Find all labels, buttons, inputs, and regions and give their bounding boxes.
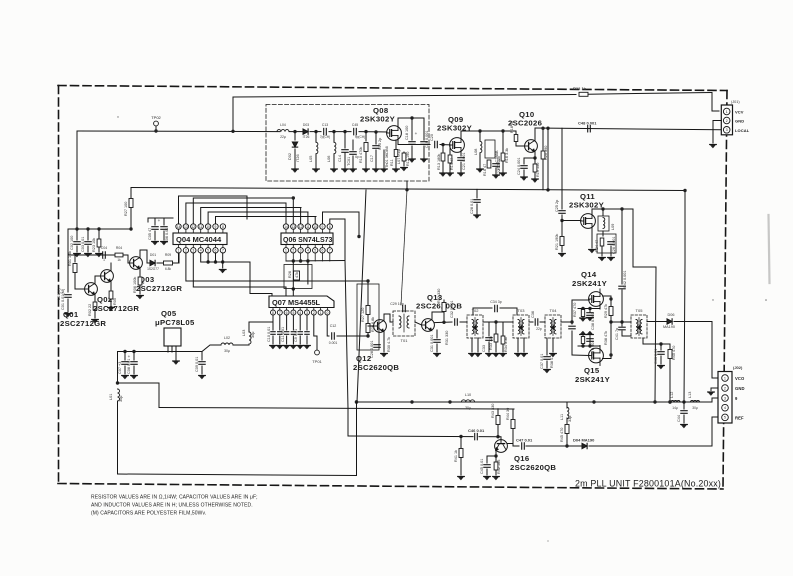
wire C05 column xyxy=(147,218,149,222)
capacitor C29 xyxy=(403,305,406,311)
node rail A 450 xyxy=(448,400,451,403)
wire gate column lower xyxy=(571,331,573,355)
ground R14 xyxy=(447,173,454,176)
ground R17 xyxy=(500,173,507,176)
wire q06 to q07 left xyxy=(285,287,287,296)
ground C31 xyxy=(434,354,441,357)
wire T05 out xyxy=(647,321,666,323)
node q06 c1 xyxy=(292,287,295,290)
IC Q07 pins xyxy=(271,308,330,316)
wire L08 down xyxy=(479,153,481,162)
wire Q08 drain up xyxy=(397,118,399,126)
wire C32 to T02 xyxy=(460,321,467,323)
svg-text:R27 120: R27 120 xyxy=(361,308,365,322)
svg-text:R38 4.7: R38 4.7 xyxy=(550,355,554,368)
wire R38 col xyxy=(582,335,584,347)
wire R41 col xyxy=(460,437,462,449)
wire L05 branch xyxy=(315,132,317,142)
ground R02 xyxy=(92,320,99,323)
capacitor below Q07 1 xyxy=(271,332,275,335)
resistor R17 xyxy=(501,153,505,161)
border frame (decorative) xyxy=(58,86,727,490)
svg-text:IT26: IT26 xyxy=(296,154,300,162)
svg-text:C37 0.01: C37 0.01 xyxy=(540,354,544,369)
svg-text:3: 3 xyxy=(306,311,308,315)
wire R10 branch xyxy=(365,132,367,141)
wire pin6 stub xyxy=(215,253,217,262)
svg-text:30μ: 30μ xyxy=(251,332,255,338)
svg-text:0.001: 0.001 xyxy=(329,341,338,345)
capacitor C02 xyxy=(74,242,80,245)
svg-text:1k: 1k xyxy=(117,258,121,262)
capacitor below Q07 5 xyxy=(298,332,302,335)
wire supply bus xyxy=(131,188,685,191)
wire q07 pin1 out xyxy=(327,315,329,336)
capacitor C07 xyxy=(122,362,128,365)
wire T04 bottom gnd xyxy=(552,338,554,352)
wire T02 bottom gnd2 xyxy=(477,338,479,352)
wire C47 out xyxy=(526,445,581,447)
transistor Q03 xyxy=(130,257,143,270)
inductor L09a box xyxy=(485,140,495,158)
wire C41 stub xyxy=(621,322,623,326)
wire thermistor branch xyxy=(383,150,385,168)
svg-text:AND INDUCTOR VALUES ARE IN H;: AND INDUCTOR VALUES ARE IN H; UNLESS OTH… xyxy=(91,503,253,509)
svg-text:2SC2620QB: 2SC2620QB xyxy=(353,363,399,372)
transistor Q02 xyxy=(101,270,114,283)
node L05 junction xyxy=(314,130,317,133)
wire Q04 pin14 route xyxy=(179,196,248,224)
wire to Q12 base xyxy=(368,325,374,327)
wire Q02 emitter xyxy=(110,281,112,290)
wire rail A xyxy=(357,401,713,403)
svg-text:R30 4.7k: R30 4.7k xyxy=(387,337,391,352)
node box top tie xyxy=(366,279,369,282)
svg-text:μPC78L05: μPC78L05 xyxy=(155,318,195,327)
inductor L06 xyxy=(334,142,336,153)
svg-text:C43 0.01: C43 0.01 xyxy=(654,349,658,364)
wire q06 pin13 up xyxy=(292,198,294,224)
wire q06 pin9 up xyxy=(323,212,360,224)
svg-text:C44: C44 xyxy=(677,415,681,422)
wire R10 to ground xyxy=(365,152,367,168)
svg-text:GND: GND xyxy=(735,386,745,391)
resistor R33 xyxy=(494,334,498,342)
wire Q08 drain top xyxy=(398,117,424,119)
inductor L02 xyxy=(221,343,233,345)
wire R21 to ground xyxy=(561,246,563,253)
inductor L05 xyxy=(316,142,318,153)
svg-text:47k: 47k xyxy=(295,272,299,278)
ground C26 xyxy=(608,258,615,261)
wire L01 step down xyxy=(158,383,160,408)
capacitor C04 xyxy=(103,252,106,258)
svg-text:Q06 SN74LS73: Q06 SN74LS73 xyxy=(283,237,333,244)
svg-text:9: 9 xyxy=(215,225,217,229)
node Q15 src b xyxy=(588,344,591,347)
capacitor C45b xyxy=(484,465,490,468)
wire C06 gnd xyxy=(163,231,165,240)
wire L11 col xyxy=(566,402,568,408)
svg-text:2SK241Y: 2SK241Y xyxy=(575,375,610,384)
wire T02 top out xyxy=(473,308,492,315)
svg-text:C36: C36 xyxy=(531,311,535,318)
svg-text:(J02): (J02) xyxy=(733,365,743,370)
FET Q15 xyxy=(589,346,604,366)
svg-text:D03: D03 xyxy=(303,123,309,127)
node rail A 654 xyxy=(653,400,656,403)
svg-text:R14 47: R14 47 xyxy=(450,158,454,170)
svg-text:REF: REF xyxy=(735,416,744,421)
node C14 junction xyxy=(343,130,346,133)
svg-text:13: 13 xyxy=(184,225,188,229)
wire q07 pin5 down xyxy=(299,315,301,330)
capacitor C32 xyxy=(455,319,458,325)
wire TP02 stem xyxy=(155,126,157,131)
wire R2728 mid xyxy=(367,296,369,336)
capacitor C42 xyxy=(619,286,625,289)
svg-text:C07 +3: C07 +3 xyxy=(118,362,122,374)
resistor R34 xyxy=(501,336,505,344)
capacitor C08 xyxy=(131,362,137,365)
wire R45 down xyxy=(566,434,568,447)
svg-text:5: 5 xyxy=(314,249,316,253)
wire C03 to ground xyxy=(87,246,89,252)
inductor L11 xyxy=(567,407,569,418)
wire C18 branch xyxy=(411,118,413,140)
svg-text:R24 47: R24 47 xyxy=(595,240,599,252)
svg-text:C15 2p: C15 2p xyxy=(378,138,382,150)
svg-text:R01 1.5k: R01 1.5k xyxy=(68,251,72,266)
wire rail B xyxy=(159,408,514,410)
wire R33 gnd xyxy=(495,342,497,352)
transistor Q12 xyxy=(374,320,387,333)
svg-text:R26: R26 xyxy=(288,271,292,278)
svg-text:R16 47: R16 47 xyxy=(483,164,487,176)
inductor L01 xyxy=(118,389,120,401)
wire C01 to ground xyxy=(67,299,69,312)
svg-text:2: 2 xyxy=(724,386,726,390)
ground T02b xyxy=(475,354,482,357)
capacitor C12 xyxy=(332,333,335,339)
svg-text:R41 1k: R41 1k xyxy=(454,450,458,462)
wire Q11 vert xyxy=(547,128,549,190)
resistor R32 xyxy=(442,303,446,312)
wire Q14 src stub xyxy=(578,308,600,310)
svg-text:C48 0.001: C48 0.001 xyxy=(578,121,597,126)
wire C19 branch xyxy=(423,118,425,140)
svg-text:1: 1 xyxy=(178,249,180,253)
svg-text:1: 1 xyxy=(103,258,105,262)
capacitor C41 xyxy=(619,327,625,330)
svg-text:R19 150: R19 150 xyxy=(536,163,540,177)
node C42 top xyxy=(620,207,623,210)
wire R42 gnd xyxy=(495,470,497,475)
svg-text:C26 0.001: C26 0.001 xyxy=(612,236,616,254)
ground C02 xyxy=(74,254,81,257)
wire C25 column xyxy=(561,128,563,209)
capacitor C28b xyxy=(474,200,480,203)
crystal X02 xyxy=(294,271,300,280)
svg-text:2SC2712GR: 2SC2712GR xyxy=(136,284,182,293)
svg-text:C03 0.01: C03 0.01 xyxy=(81,237,85,252)
wire C03 drop xyxy=(87,229,89,240)
svg-text:MA190: MA190 xyxy=(663,325,675,329)
resistor R27 xyxy=(129,199,133,208)
svg-text:+: + xyxy=(415,131,418,136)
wire q06 pin14 up xyxy=(285,203,287,224)
wire R21 drop xyxy=(561,221,563,237)
IC Q07 body xyxy=(269,296,334,308)
wire C33 drop xyxy=(488,322,490,336)
capacitor C03 xyxy=(85,242,91,245)
ground C37 xyxy=(544,370,551,373)
inductor L08 xyxy=(480,141,482,152)
svg-text:L13: L13 xyxy=(688,392,692,398)
wire Q15 gate xyxy=(572,354,589,357)
resistor R04 xyxy=(115,253,123,257)
resistor R02 xyxy=(93,302,97,310)
wire V1 corner xyxy=(347,408,349,436)
capacitor C20 xyxy=(435,141,438,147)
transformer T01 (dashed can) xyxy=(393,311,415,336)
wire D06 to VCO xyxy=(674,322,718,379)
wire L06 branch xyxy=(333,132,335,142)
svg-text:4: 4 xyxy=(307,249,309,253)
wire TC01 branch xyxy=(352,140,354,150)
wire L06 to ground xyxy=(333,154,335,168)
node bus osc tap xyxy=(405,188,408,191)
ground C09 xyxy=(199,376,206,379)
ground C06 xyxy=(161,242,168,245)
svg-text:R17 12k: R17 12k xyxy=(497,156,501,170)
svg-text:13: 13 xyxy=(291,225,295,229)
wire R11 to ground xyxy=(395,157,397,168)
node Q16 emitter xyxy=(494,454,497,457)
resistor R16 xyxy=(487,160,491,168)
wire Q15 drain xyxy=(603,355,612,359)
wire stray node drop xyxy=(358,212,360,236)
wire left input rail drop xyxy=(76,131,78,229)
IC Q04 top pins xyxy=(176,224,226,233)
svg-text:R32 330: R32 330 xyxy=(437,289,441,303)
svg-text:LOCAL: LOCAL xyxy=(735,128,750,133)
ground R23 xyxy=(96,254,103,257)
wire Q03 collector to D01 xyxy=(140,250,149,263)
wire R32 col xyxy=(443,300,445,322)
wire TP01 stem xyxy=(316,336,318,350)
wire C45 to Q08 gate xyxy=(359,131,387,133)
svg-text:C45: C45 xyxy=(352,123,358,127)
capacitor C39 xyxy=(587,339,593,342)
capacitor C06 xyxy=(161,227,167,230)
FET Q14 xyxy=(589,289,604,309)
capacitor C34 xyxy=(495,305,498,311)
wire top supply rail xyxy=(233,95,576,98)
wire reg rail xyxy=(118,351,203,353)
svg-text:C09 0.01: C09 0.01 xyxy=(195,357,199,372)
svg-text:C12: C12 xyxy=(330,324,337,328)
ground q07 6 xyxy=(304,346,311,349)
wire Q14 drain xyxy=(603,296,612,299)
node bias b xyxy=(86,227,89,230)
ground L05 xyxy=(313,169,320,172)
wire bias down xyxy=(68,229,75,255)
wire R23 to ground xyxy=(98,247,100,252)
svg-text:C17: C17 xyxy=(370,155,374,162)
wire Q13 emitter xyxy=(436,330,438,338)
ground T03b xyxy=(521,354,528,357)
svg-text:L08: L08 xyxy=(474,149,478,155)
ground C05 xyxy=(152,242,159,245)
inductor L10 xyxy=(461,400,474,402)
wire L13 to pin3 xyxy=(700,398,719,402)
svg-text:Q15: Q15 xyxy=(584,366,600,375)
svg-text:C19 0.001: C19 0.001 xyxy=(425,130,429,148)
svg-text:R20 390: R20 390 xyxy=(544,146,548,160)
resistor R12 xyxy=(402,153,406,161)
node q06 b2 xyxy=(299,259,302,262)
transistor Q13 xyxy=(422,319,435,332)
wire L09 drop xyxy=(602,209,604,216)
trimmer TC01 xyxy=(350,152,356,155)
svg-text:T01: T01 xyxy=(401,338,409,343)
svg-text:R04: R04 xyxy=(116,246,122,250)
svg-text:C28 0.01: C28 0.01 xyxy=(470,199,474,214)
wire R14 to ground xyxy=(449,163,451,172)
capacitor C18 xyxy=(409,142,415,145)
bias network R27 R28 box xyxy=(357,284,379,350)
transformer T03 xyxy=(513,315,529,338)
svg-text:L04: L04 xyxy=(280,123,286,127)
wire L03 up xyxy=(249,315,273,332)
wire C05C06 rail xyxy=(148,217,173,219)
node reg b xyxy=(132,350,135,353)
node C43 top xyxy=(659,342,662,345)
node Q09 gate xyxy=(441,143,444,146)
wire bottom loop xyxy=(118,474,357,476)
svg-text:R38 47k: R38 47k xyxy=(604,331,608,345)
svg-text:Th01 3KDB6: Th01 3KDB6 xyxy=(385,146,389,168)
ground C21 xyxy=(458,173,465,176)
svg-text:R40 470: R40 470 xyxy=(672,346,676,360)
wire Q09 drain up xyxy=(460,131,462,138)
wire bus to T01 area xyxy=(401,190,407,305)
inductor L13 xyxy=(691,401,700,403)
svg-text:C08 0.01: C08 0.01 xyxy=(127,359,131,374)
svg-text:R43 330: R43 330 xyxy=(491,404,495,418)
svg-text:T03: T03 xyxy=(518,308,526,313)
wire Q01 collector xyxy=(95,276,101,284)
node R41 top xyxy=(459,435,462,438)
svg-text:TC01: TC01 xyxy=(347,157,351,166)
wire left drop to L01 xyxy=(117,352,119,384)
resistor R42 xyxy=(494,462,498,470)
svg-text:C46 0.01: C46 0.01 xyxy=(468,428,485,433)
ground R13 xyxy=(440,173,447,176)
resistor R09 xyxy=(164,261,173,265)
wire base feed Q16 xyxy=(348,435,473,438)
wire q06 bottom stubs xyxy=(286,253,330,261)
svg-text:C10 0.01: C10 0.01 xyxy=(267,327,271,342)
wire to J01 pin1 xyxy=(712,93,719,112)
svg-text:7: 7 xyxy=(279,311,281,315)
wire R04 to Q03 base xyxy=(123,255,130,263)
oscillator shield box (dashed) xyxy=(266,105,429,182)
resistor R21 xyxy=(560,237,564,246)
ground R24 xyxy=(599,258,606,261)
wire Q05 pin mid xyxy=(171,346,173,352)
wire R42 col xyxy=(495,456,497,461)
svg-text:11: 11 xyxy=(306,225,310,229)
wire Q10 emitter xyxy=(534,151,536,158)
svg-text:TP02: TP02 xyxy=(151,115,161,120)
svg-text:C47 0.01: C47 0.01 xyxy=(516,438,533,443)
node top rail junction xyxy=(231,130,234,133)
capacitor C05 xyxy=(152,227,158,230)
wire Q15 source xyxy=(599,346,601,349)
wire pin1 down xyxy=(178,253,181,263)
wire R02 to ground xyxy=(94,310,96,318)
svg-text:R21 190k: R21 190k xyxy=(555,234,559,250)
ground R33 xyxy=(493,354,500,357)
ground C43 xyxy=(658,366,665,369)
svg-text:2SC2026: 2SC2026 xyxy=(508,119,542,128)
wire L11 to R45 xyxy=(566,418,568,424)
wire R24 link xyxy=(602,231,604,236)
wire R24 to ground xyxy=(601,246,603,256)
node floating tie xyxy=(357,235,360,238)
svg-text:C01 0.01(M): C01 0.01(M) xyxy=(61,288,65,310)
node q06 b3 xyxy=(306,259,309,262)
svg-text:33μ: 33μ xyxy=(568,416,572,422)
svg-text:C05 47: C05 47 xyxy=(148,228,152,240)
svg-text:14: 14 xyxy=(177,225,181,229)
IC Q06 bottom pins xyxy=(283,245,332,254)
wire q07 cap2 gnd xyxy=(279,336,281,344)
svg-text:(M) CAPACITORS ARE POLYESTER F: (M) CAPACITORS ARE POLYESTER FILM,50Wv. xyxy=(91,511,206,517)
svg-text:12: 12 xyxy=(299,225,303,229)
wire T04 out xyxy=(561,321,572,323)
wire q07 cap1 gnd xyxy=(272,336,274,344)
svg-text:4: 4 xyxy=(299,311,301,315)
svg-text:Q04 MC4044: Q04 MC4044 xyxy=(176,235,222,244)
svg-text:2SC2620QB: 2SC2620QB xyxy=(510,463,556,472)
wire R14 branch xyxy=(449,145,451,154)
wire R40 down xyxy=(669,359,671,403)
resistor R13 xyxy=(441,153,445,161)
svg-text:C04: C04 xyxy=(101,246,107,250)
svg-text:2m PLL UNIT F2800101A(No.: 2m PLL UNIT F2800101A(No.20xx) xyxy=(575,479,721,489)
svg-text:C29 10p: C29 10p xyxy=(390,302,404,306)
node q04 pin6 xyxy=(214,260,217,263)
transformer T02 xyxy=(467,315,483,338)
svg-text:C13: C13 xyxy=(322,123,328,127)
svg-text:1: 1 xyxy=(726,110,728,114)
wire Q16 collector xyxy=(507,444,519,447)
wire Q10 output to LOCAL xyxy=(535,128,721,130)
wire C09 gnd xyxy=(201,366,203,374)
svg-text:R23 10k: R23 10k xyxy=(92,238,96,252)
svg-text:C02 100: C02 100 xyxy=(70,236,74,250)
node Q10 emitter xyxy=(533,156,536,159)
wire R06 to ground xyxy=(139,285,141,294)
wire T01 out xyxy=(415,322,422,325)
svg-text:30μ: 30μ xyxy=(465,406,471,410)
wire R13 branch xyxy=(442,145,444,152)
resistor R38b xyxy=(581,337,584,344)
node bus right corner xyxy=(683,189,686,192)
